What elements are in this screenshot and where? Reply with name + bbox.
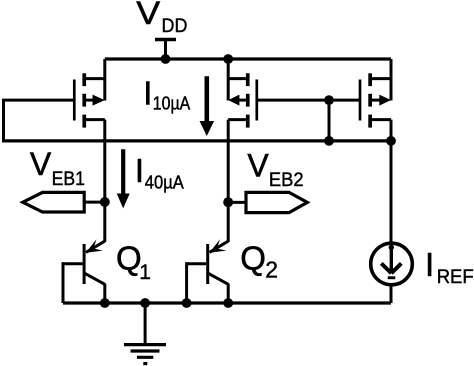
svg-text:Q: Q <box>116 240 142 277</box>
label I 40uA <box>135 152 184 193</box>
power supply VDD bar <box>155 40 176 60</box>
svg-text:REF: REF <box>437 266 474 288</box>
junction: VEB1 node <box>100 197 110 207</box>
svg-text:40µA: 40µA <box>145 173 184 193</box>
transistor M3 (right PMOS) <box>360 73 391 127</box>
wire: top VDD rail <box>105 57 391 60</box>
svg-text:I: I <box>425 246 434 283</box>
svg-text:EB1: EB1 <box>52 169 85 190</box>
wire: M1 source to VDD rail <box>103 59 106 101</box>
ground <box>124 303 166 364</box>
svg-text:Q: Q <box>240 240 266 277</box>
junction: Q1 collector on rail <box>100 298 110 308</box>
arrow: 10uA current downward <box>200 76 215 136</box>
transistor M1 (left PMOS, 4-terminal) <box>74 73 105 127</box>
wire: M3 gate lead from gate node <box>329 99 360 102</box>
svg-text:V: V <box>247 147 269 183</box>
svg-text:I: I <box>135 152 144 189</box>
junction: ground stub on rail <box>140 298 150 308</box>
wire: IREF bottom to ground rail <box>390 284 393 303</box>
current source IREF <box>371 243 413 285</box>
transistor Q1 (PNP) <box>63 202 105 303</box>
svg-text:2: 2 <box>265 257 278 283</box>
junction: VDD stub on rail <box>161 54 171 64</box>
wire: M2 drain down to VEB2 node <box>227 120 230 203</box>
svg-text:V: V <box>30 146 52 182</box>
wire: gate node down to bus <box>328 100 331 141</box>
transistor M2 (middle PMOS, mirrored) <box>228 73 257 127</box>
junction: M3 drain on bus <box>386 136 396 146</box>
junction: Q2 base loop on rail <box>182 298 192 308</box>
wire: M1 drain down to VEB1 node <box>103 120 106 202</box>
wire: M3 source to VDD rail <box>390 59 393 101</box>
svg-text:EB2: EB2 <box>269 170 304 191</box>
label Q2 <box>240 240 278 283</box>
label I 10uA <box>143 74 190 113</box>
wire: M2 gate lead to gate node <box>257 99 329 102</box>
svg-text:V: V <box>136 0 161 31</box>
label VDD <box>136 0 187 37</box>
junction: Q2 collector on rail <box>223 298 233 308</box>
arrow: 40uA current downward <box>117 149 130 208</box>
svg-text:DD: DD <box>162 16 188 37</box>
port VEB2 (right-pointing) <box>228 192 307 212</box>
wire: M3 drain down to bus and IREF <box>390 120 393 243</box>
label VEB2 <box>247 147 303 191</box>
wire: M1 gate lead to left edge <box>2 99 74 102</box>
junction: M2/M3 gate tie <box>324 95 334 105</box>
junction: gate node on bus <box>324 136 334 146</box>
label VEB1 <box>30 146 85 190</box>
wire: bottom ground rail <box>63 301 391 304</box>
junction: VEB2 node <box>223 197 233 207</box>
wire: M2 source to VDD rail <box>227 59 230 101</box>
svg-text:I: I <box>143 74 152 111</box>
label Q1 <box>116 240 151 284</box>
svg-text:1: 1 <box>139 261 151 284</box>
wire: gate/drain bus horizontal <box>2 139 391 142</box>
junction: M2 source tap on rail <box>223 54 233 64</box>
svg-text:10µA: 10µA <box>153 94 191 114</box>
wire: left edge vertical (gate to bus) <box>2 100 5 141</box>
transistor Q2 (PNP) <box>187 202 229 303</box>
port VEB1 (left-pointing) <box>23 192 105 212</box>
label IREF <box>425 246 474 288</box>
